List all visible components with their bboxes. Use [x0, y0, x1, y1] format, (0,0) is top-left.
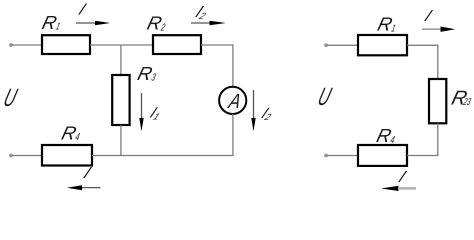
resistor R3	[112, 75, 129, 125]
wire ammeter to bottom rail	[232, 114, 234, 156]
resistor R23	[429, 79, 446, 123]
wire top-left to R1	[12, 44, 42, 46]
wire R4 to bottom-right corner (right circuit)	[407, 155, 439, 157]
resistor R4 (right circuit)	[358, 145, 407, 166]
wire R2 to right corner	[201, 44, 234, 46]
current arrow I1 (beside R3)	[139, 93, 143, 131]
current arrow I (left circuit top)	[76, 21, 110, 25]
resistor R1 (right circuit)	[358, 35, 407, 55]
wire top to R1 (right circuit)	[327, 44, 358, 46]
label I (right circuit bottom)	[396, 168, 409, 186]
terminal (left circuit, bottom input)	[9, 154, 13, 158]
terminal (left circuit, top input)	[9, 43, 13, 47]
wire R3 bottom to bottom rail	[120, 125, 122, 156]
resistor R2	[153, 35, 201, 54]
label R4 (left circuit)	[59, 124, 83, 145]
label R2	[145, 14, 169, 35]
current arrow I2 (top)	[191, 21, 226, 25]
resistor R4 (left circuit)	[42, 145, 92, 166]
ammeter A1	[219, 87, 246, 114]
wire R23 to bottom corner	[437, 123, 439, 156]
label A (ammeter)	[226, 91, 244, 114]
current arrow I2 (beside ammeter)	[251, 90, 255, 131]
wire R1 to right corner (right circuit)	[407, 44, 439, 46]
current arrow I (right circuit bottom, pointing left)	[381, 186, 416, 191]
label I (left circuit bottom)	[81, 164, 94, 182]
wire right branch down to ammeter	[232, 44, 234, 87]
label U (right circuit)	[315, 83, 335, 111]
current arrow I (left circuit bottom, pointing left)	[67, 185, 101, 190]
label R1 (right circuit)	[375, 15, 399, 36]
label I (left circuit top)	[76, 0, 89, 18]
label I1	[147, 105, 165, 122]
current arrow I (right circuit top)	[422, 27, 455, 32]
terminal (right circuit, top input)	[324, 43, 328, 47]
label I (right circuit top)	[422, 7, 435, 25]
label R23	[449, 88, 474, 110]
label R4 (right circuit)	[374, 126, 398, 147]
wire R4 to bottom-right corner	[92, 155, 234, 157]
wire right branch down to R23	[437, 45, 439, 79]
label R3	[135, 64, 159, 85]
label I2 (top)	[192, 3, 212, 22]
wire R1 to R2	[90, 44, 153, 46]
wire bottom to R4 (right circuit)	[327, 155, 358, 157]
resistor R1 (left circuit)	[42, 35, 90, 54]
wire bottom-left to R4	[12, 155, 42, 157]
terminal (right circuit, bottom input)	[324, 154, 328, 158]
wire R3 branch vertical top	[120, 45, 122, 75]
label R1	[40, 13, 64, 34]
label U (left circuit)	[0, 84, 20, 112]
label I2 (beside ammeter)	[258, 106, 277, 123]
